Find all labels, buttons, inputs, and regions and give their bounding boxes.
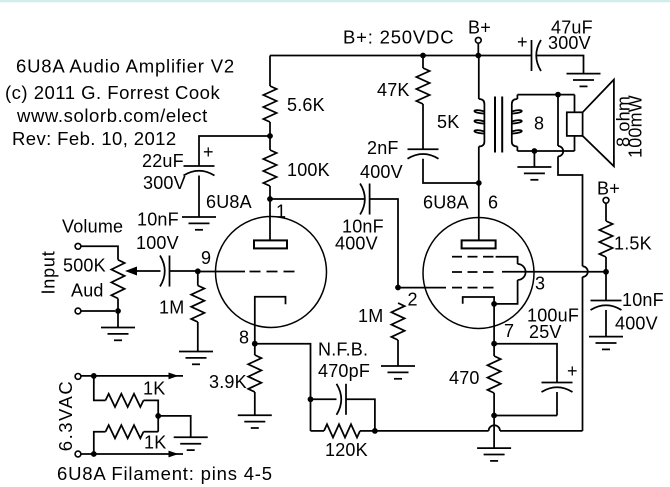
label 47uF xyxy=(551,18,593,38)
ground (22uF) xyxy=(182,217,216,230)
grid g1 dashes xyxy=(452,287,494,289)
label 10nF (right) xyxy=(622,290,664,310)
label pin 6 xyxy=(488,193,498,213)
svg-text:470pF: 470pF xyxy=(318,361,370,381)
wire 1.5K to node xyxy=(605,257,607,272)
resistor R-1K-lower xyxy=(106,425,144,438)
capacitor C-10nF-400V xyxy=(360,184,370,215)
wire bottom node down xyxy=(493,416,495,449)
wire 1K upper to center xyxy=(144,400,159,416)
node plate V2 xyxy=(476,180,482,186)
wire pin7 to 470 xyxy=(493,344,495,356)
node grid V2 xyxy=(395,285,401,291)
label 25V xyxy=(529,322,562,342)
node cathode bottom xyxy=(491,413,497,419)
capacitor C-470pF xyxy=(337,384,347,415)
wire 47K to 2nF xyxy=(422,104,424,149)
label 300V (22uF) xyxy=(143,173,186,193)
wire pin1 lead xyxy=(269,199,271,240)
label 3.9K xyxy=(209,372,247,392)
label pin 9 xyxy=(201,248,211,268)
resistor R-1M-right xyxy=(391,303,404,340)
node filament bottom xyxy=(91,451,97,457)
svg-text:www.solorb.com/elect: www.solorb.com/elect xyxy=(16,105,208,126)
wire to 1K upper xyxy=(94,376,106,401)
svg-text:8: 8 xyxy=(239,328,249,348)
wire input top to pot xyxy=(81,246,118,259)
capacitor C-10nF-right xyxy=(591,301,622,311)
wire secondary top to speaker xyxy=(517,94,574,96)
terminal B+ (right) xyxy=(603,197,609,203)
wire 470 to bottom node xyxy=(493,393,495,416)
capacitor C-10nF-100V xyxy=(160,256,170,287)
svg-text:7: 7 xyxy=(504,321,514,341)
label 6U8A (V2) xyxy=(423,193,469,213)
svg-text:25V: 25V xyxy=(529,322,562,342)
wire node to 10nF right xyxy=(605,272,607,301)
speaker cone xyxy=(583,80,614,167)
svg-text:(c) 2011 G. Forrest Cook: (c) 2011 G. Forrest Cook xyxy=(5,82,220,103)
wire node to 22uF xyxy=(199,136,270,166)
ground (1M right) xyxy=(381,366,415,379)
ground (filament) xyxy=(174,437,208,450)
terminal B+ (top) xyxy=(475,37,481,43)
svg-text:300V: 300V xyxy=(143,173,186,193)
wire node to 1M xyxy=(197,271,199,285)
wire 100uF bottom xyxy=(556,392,558,416)
wire grid node to tube xyxy=(198,271,245,273)
svg-text:B+: B+ xyxy=(468,18,491,38)
secondary coil xyxy=(512,99,522,147)
svg-text:100mW: 100mW xyxy=(626,95,646,158)
node filament top xyxy=(91,373,97,379)
node secondary ground xyxy=(532,148,538,154)
resistor R-1.5K xyxy=(599,221,612,257)
wire grid node to tube V2 xyxy=(398,287,446,289)
label 5.6K xyxy=(287,95,325,115)
cathode V2 xyxy=(463,297,494,344)
wire to 120K xyxy=(311,430,325,432)
resistor R-1M-left xyxy=(191,286,204,323)
label 400V (mid) xyxy=(335,234,378,254)
label 120K xyxy=(325,440,368,460)
label 8 ohm xyxy=(614,96,634,147)
ground (secondary) xyxy=(517,167,551,180)
svg-text:1M: 1M xyxy=(159,298,184,318)
svg-text:1K: 1K xyxy=(143,379,165,399)
cathode V1 xyxy=(255,297,286,344)
wire pin6 lead xyxy=(478,183,480,240)
wire secondary bottom to speaker xyxy=(517,150,574,152)
node NFB top xyxy=(308,396,314,402)
wire pin8 to NFB corner xyxy=(255,344,311,400)
top border strip xyxy=(0,0,670,2)
wire B+ rail xyxy=(270,55,532,57)
primary coil 5K xyxy=(474,99,484,147)
svg-text:Volume: Volume xyxy=(62,217,123,237)
label 6.3VAC xyxy=(55,380,76,451)
node speaker top / feedback xyxy=(555,92,561,98)
wire 470pF to right leg xyxy=(346,399,375,431)
svg-text:B+: B+ xyxy=(597,179,620,199)
resistor R-47K xyxy=(416,68,429,104)
label 1K (upper) xyxy=(143,379,165,399)
capacitor C-100uF xyxy=(542,383,573,393)
caption filament xyxy=(57,463,273,484)
wire cap to grid V2 xyxy=(370,199,398,288)
wire speaker bottom terminal xyxy=(574,136,576,151)
label 1K (lower) xyxy=(144,433,166,453)
resistor R-1K-upper xyxy=(106,394,144,407)
ground (47uF) xyxy=(567,74,601,87)
ground (10nF right) xyxy=(589,337,623,350)
label pin 8 xyxy=(239,328,249,348)
label 6U8A (V1) xyxy=(206,192,252,212)
wire filament bottom xyxy=(81,453,183,455)
wire feedback jog xyxy=(558,156,583,266)
label 100uF xyxy=(527,306,579,326)
svg-text:+: + xyxy=(567,361,578,381)
label pin 1 xyxy=(276,202,286,222)
svg-text:120K: 120K xyxy=(325,440,368,460)
wire input bottom xyxy=(81,310,115,312)
label 1.5K xyxy=(614,234,652,254)
label 2nF xyxy=(367,138,399,158)
wire 1K lower to bottom xyxy=(94,432,106,454)
wire center to 1K lower xyxy=(157,416,159,432)
arrow filament top xyxy=(169,373,179,380)
label B+: 250VDC xyxy=(343,27,454,48)
wire feedback vertical upper xyxy=(557,95,559,146)
wire B+ terminal lead xyxy=(477,43,479,56)
terminal filament bottom xyxy=(75,451,81,457)
resistor R-100K xyxy=(263,150,276,186)
svg-text:300V: 300V xyxy=(548,33,591,53)
plate V2 xyxy=(462,240,496,248)
bracket hop over pin3 wire xyxy=(518,264,526,280)
node cathode/bracket xyxy=(491,301,497,307)
label 400V (right) xyxy=(615,314,658,334)
resistor R-3.9K xyxy=(248,355,261,392)
wire plate node to coupling xyxy=(270,198,365,200)
svg-text:+: + xyxy=(203,142,214,162)
label + (22uF) xyxy=(203,142,214,162)
ground (pot) xyxy=(101,328,135,341)
wire 47uF to ground bend xyxy=(537,56,584,74)
svg-text:400V: 400V xyxy=(615,314,658,334)
svg-text:5.6K: 5.6K xyxy=(287,95,325,115)
resistor R-470 xyxy=(488,356,501,393)
svg-text:Rev: Feb. 10, 2012: Rev: Feb. 10, 2012 xyxy=(12,128,177,149)
potentiometer 500K xyxy=(111,260,124,299)
svg-text:3: 3 xyxy=(535,274,545,294)
wire 10nF right to ground xyxy=(605,310,607,337)
wire 22uF to ground xyxy=(198,176,200,218)
resistor R-5.6K xyxy=(263,86,276,122)
svg-text:22uF: 22uF xyxy=(142,151,184,171)
wire cap to grid node xyxy=(170,270,198,272)
wire 1K lower right leg xyxy=(144,431,159,433)
svg-text:3.9K: 3.9K xyxy=(209,372,247,392)
node rail/B+ terminal xyxy=(475,53,481,59)
node pin8 xyxy=(252,341,258,347)
svg-text:6U8A Filament: pins 4-5: 6U8A Filament: pins 4-5 xyxy=(57,463,273,484)
node rail/47K xyxy=(420,53,426,59)
label Aud xyxy=(71,281,104,301)
wire 1M right to ground xyxy=(397,340,399,366)
tube V2 envelope xyxy=(423,218,534,329)
title text line 1 xyxy=(16,56,235,77)
wire center tap to ground xyxy=(158,416,191,437)
label 22uF xyxy=(142,151,184,171)
svg-text:Input: Input xyxy=(39,250,59,294)
node plate V1 xyxy=(267,196,273,202)
wire rail to 5.6K xyxy=(269,56,271,87)
wire filament top xyxy=(81,375,183,377)
wire pin8 to 3.9K xyxy=(254,344,256,355)
capacitor C-47uF xyxy=(532,40,542,71)
svg-text:500K: 500K xyxy=(63,256,106,276)
svg-text:470: 470 xyxy=(449,368,480,388)
wire 100K to plate node xyxy=(269,186,271,199)
label 500K xyxy=(63,256,106,276)
wire feedback vertical lower xyxy=(582,277,584,431)
wire 3.9K to ground xyxy=(254,392,256,415)
g3-cathode bracket upper xyxy=(496,257,518,264)
capacitor C-2nF xyxy=(408,149,439,159)
title text line 4 xyxy=(12,128,177,149)
svg-text:47K: 47K xyxy=(377,80,410,100)
wire cathode node to 100uF top xyxy=(494,344,557,383)
label Volume xyxy=(62,217,123,237)
wire wiper to cap xyxy=(137,270,161,272)
arrow filament bottom xyxy=(169,451,179,458)
label 10nF (100V) xyxy=(137,210,179,230)
wire primary to plate node xyxy=(478,147,480,184)
label B+ (top terminal) xyxy=(468,18,491,38)
svg-text:400V: 400V xyxy=(335,234,378,254)
label 300V (47uF) xyxy=(548,33,591,53)
svg-text:100V: 100V xyxy=(136,233,179,253)
wire B+ to 1.5K xyxy=(605,203,607,221)
hop over secondary-bottom wire xyxy=(558,146,563,156)
terminal input top xyxy=(75,243,81,249)
label 100mW xyxy=(626,95,646,158)
wire 2nF to plate node V2 xyxy=(423,159,479,183)
wire 5.6K to node xyxy=(269,122,271,136)
wire rail to 47K xyxy=(422,56,424,69)
wire 120K to node xyxy=(360,430,375,432)
label 8 (secondary) xyxy=(534,114,544,134)
svg-text:1M: 1M xyxy=(358,306,383,326)
wire pin3 xyxy=(502,271,606,273)
svg-text:6.3VAC: 6.3VAC xyxy=(55,380,76,451)
wire NFB node to 470pF xyxy=(311,398,337,400)
hop over pin3 wire xyxy=(583,266,588,277)
svg-text:1.5K: 1.5K xyxy=(614,234,652,254)
svg-text:6: 6 xyxy=(488,193,498,213)
svg-text:N.F.B.: N.F.B. xyxy=(318,340,368,360)
label pin 2 xyxy=(408,290,418,310)
speaker voice coil xyxy=(567,112,583,136)
wire secondary to ground xyxy=(533,151,535,167)
svg-text:1: 1 xyxy=(276,202,286,222)
title text line 2 xyxy=(5,82,220,103)
label 470pF xyxy=(318,361,370,381)
label 400V (2nF) xyxy=(360,162,403,182)
core line 2 xyxy=(501,97,503,153)
wire NFB node down xyxy=(310,399,312,431)
svg-text:6U8A: 6U8A xyxy=(423,193,469,213)
svg-text:Aud: Aud xyxy=(71,281,104,301)
label Input xyxy=(39,250,59,294)
label + (47uF) xyxy=(517,32,528,52)
svg-text:8: 8 xyxy=(534,114,544,134)
label pin 3 xyxy=(535,274,545,294)
grid g2 dashes xyxy=(452,271,494,273)
wire feedback to 120K node xyxy=(375,425,583,431)
plate V1 xyxy=(254,240,287,248)
node filament center tap xyxy=(155,413,161,419)
wire secondary top lead xyxy=(516,95,518,99)
svg-text:+: + xyxy=(517,32,528,52)
label 1M (right) xyxy=(358,306,383,326)
label B+ (right terminal) xyxy=(597,179,620,199)
terminal filament top xyxy=(75,374,81,380)
node 120K/470pF/feedback xyxy=(372,428,378,434)
svg-text:9: 9 xyxy=(201,248,211,268)
label 10nF (mid) xyxy=(342,217,384,237)
wire node to 100K xyxy=(269,136,271,150)
svg-text:B+: 250VDC: B+: 250VDC xyxy=(343,27,454,48)
svg-text:10nF: 10nF xyxy=(622,290,664,310)
node pin7 xyxy=(491,341,497,347)
node pot bottom xyxy=(115,308,121,314)
wiper arrow xyxy=(125,267,137,276)
capacitor C-22uF xyxy=(184,166,215,176)
label 1M (left) xyxy=(159,298,184,318)
ground (3.9K) xyxy=(238,415,272,428)
label + (100uF) xyxy=(567,361,578,381)
svg-text:6U8A: 6U8A xyxy=(206,192,252,212)
ground (1M left) xyxy=(179,352,213,365)
grid V1 dashes xyxy=(250,271,295,273)
svg-text:5K: 5K xyxy=(437,112,459,132)
svg-text:2: 2 xyxy=(408,290,418,310)
svg-text:100K: 100K xyxy=(287,160,330,180)
node 5.6K/100K/22uF xyxy=(267,133,273,139)
label 470 xyxy=(449,368,480,388)
wire pot bottom xyxy=(117,299,119,312)
ground (cathode) xyxy=(477,448,511,461)
g3-cathode bracket lower xyxy=(494,280,517,304)
label 100K xyxy=(287,160,330,180)
wire rail to primary xyxy=(478,56,480,100)
node screen xyxy=(603,269,609,275)
wire bottom node to 100uF xyxy=(494,415,557,417)
tube V1 envelope xyxy=(216,217,327,328)
svg-text:6U8A Audio Amplifier V2: 6U8A Audio Amplifier V2 xyxy=(16,56,235,77)
wire 1M to ground xyxy=(197,322,199,352)
label pin 7 xyxy=(504,321,514,341)
core line 1 xyxy=(494,97,496,153)
svg-text:400V: 400V xyxy=(360,162,403,182)
title text line 3 xyxy=(16,105,208,126)
label 5K xyxy=(437,112,459,132)
label N.F.B. xyxy=(318,340,368,360)
grid g3 dashes xyxy=(452,256,494,258)
label 47K xyxy=(377,80,410,100)
terminal input bottom xyxy=(75,308,81,314)
node grid V1 xyxy=(195,268,201,274)
resistor R-120K xyxy=(324,424,360,437)
svg-text:10nF: 10nF xyxy=(137,210,179,230)
svg-text:1K: 1K xyxy=(144,433,166,453)
label 100V xyxy=(136,233,179,253)
wire secondary bottom lead xyxy=(516,147,518,152)
wire pot to ground xyxy=(117,311,119,328)
wire speaker top terminal xyxy=(574,95,576,113)
svg-text:2nF: 2nF xyxy=(367,138,399,158)
